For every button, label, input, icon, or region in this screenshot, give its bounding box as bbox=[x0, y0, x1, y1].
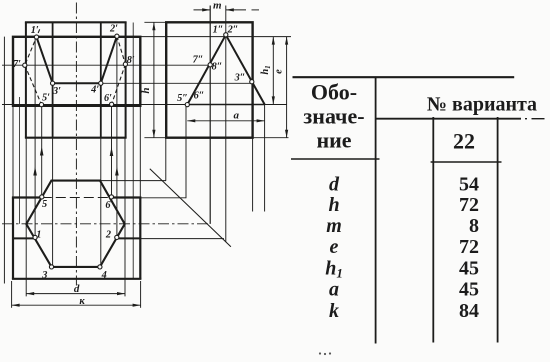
top view box right edge bbox=[139, 198, 141, 279]
arrow up on line 5 bbox=[40, 147, 44, 156]
dimension m arrow left bbox=[202, 8, 210, 11]
node 8' bbox=[123, 62, 127, 66]
projection line y=238.6 ridge level to diagonal bbox=[140, 238, 224, 240]
svg-text:1″: 1″ bbox=[213, 25, 224, 36]
table variant cell left edge bbox=[432, 117, 434, 343]
node 5 bbox=[40, 195, 44, 199]
arrow up on line 1 bbox=[33, 167, 37, 176]
intersection edge 4'-2' bbox=[101, 36, 117, 83]
svg-text:8″: 8″ bbox=[212, 62, 223, 73]
projection line y=36.6 to side view bbox=[140, 36, 291, 38]
node 1 bbox=[33, 235, 37, 239]
svg-text:№ варианта: № варианта bbox=[427, 94, 537, 116]
table column divider bbox=[375, 77, 377, 343]
front view prism corner edge 3 bbox=[52, 22, 54, 137]
dimension e arrows bbox=[285, 37, 288, 138]
svg-text:4: 4 bbox=[101, 270, 107, 281]
arrow up on line 6 bbox=[110, 147, 114, 156]
dimension e line bbox=[286, 37, 288, 138]
dimension m arrow right bbox=[226, 8, 234, 11]
svg-text:8′: 8′ bbox=[127, 55, 135, 66]
front view prism corner edge 4 bbox=[100, 22, 102, 137]
front view prism top edge bbox=[25, 21, 127, 23]
svg-text:4′: 4′ bbox=[90, 84, 99, 95]
dimension a line bbox=[187, 120, 264, 122]
cut edge right y=238.4 bbox=[117, 237, 141, 239]
svg-text:2″: 2″ bbox=[227, 25, 239, 36]
projection vertical x=19.4 faint bbox=[18, 97, 20, 224]
svg-text:72: 72 bbox=[459, 236, 479, 258]
svg-text:22: 22 bbox=[453, 129, 475, 154]
svg-text:3: 3 bbox=[41, 270, 47, 281]
dimension h line bbox=[153, 22, 155, 137]
hidden edge 7'-5' bbox=[25, 65, 42, 104]
projection vertical x=264.6 below pyramid corner bbox=[264, 105, 266, 212]
dimension m line left bbox=[194, 9, 211, 11]
svg-text:6′: 6′ bbox=[104, 93, 112, 104]
svg-text:d: d bbox=[329, 174, 340, 196]
svg-text:7′: 7′ bbox=[13, 59, 21, 70]
svg-text:5: 5 bbox=[42, 199, 47, 210]
dimension h1 line bbox=[272, 37, 274, 105]
svg-text:h: h bbox=[140, 87, 152, 93]
projection vertical x=100.8 point 4 bbox=[100, 138, 102, 267]
table variant cell right edge bbox=[497, 117, 499, 343]
side view pyramid base edge bbox=[187, 104, 264, 106]
front view prism left edge bbox=[25, 22, 27, 137]
svg-text:6″: 6″ bbox=[194, 91, 205, 102]
top view box top edge left part bbox=[12, 196, 42, 198]
top view box bottom edge bbox=[12, 278, 142, 280]
dimension k extension right bbox=[140, 281, 142, 308]
node 4 bbox=[98, 265, 102, 269]
projection vertical x=252.6 below side box bbox=[252, 138, 254, 212]
svg-text:a: a bbox=[329, 278, 339, 300]
svg-text:m: m bbox=[326, 215, 342, 237]
svg-text:ние: ние bbox=[316, 128, 351, 153]
dimension m line right bbox=[226, 9, 246, 11]
centerline vertical axis bbox=[75, 3, 77, 286]
projection line y=137.7 left ext bbox=[144, 137, 166, 139]
svg-text:72: 72 bbox=[459, 194, 479, 216]
table header underline dash bbox=[532, 118, 545, 120]
projection line y=65.2 level 7'-7'' bbox=[2, 64, 210, 66]
transfer vertical x=165.8 bbox=[165, 138, 167, 181]
dimension d arrows bbox=[26, 292, 125, 295]
centerline horizontal axis top view bbox=[2, 223, 211, 225]
hexagon base bbox=[26, 181, 124, 267]
front view prism right edge bbox=[125, 22, 127, 137]
svg-text:2′: 2′ bbox=[109, 24, 118, 35]
node 3 bbox=[49, 265, 53, 269]
dimension k arrows bbox=[12, 304, 141, 307]
side view box outline bbox=[166, 22, 252, 137]
svg-text:e: e bbox=[330, 236, 339, 258]
svg-text:5″: 5″ bbox=[177, 93, 188, 104]
svg-text:h1: h1 bbox=[260, 65, 272, 74]
front view prism bottom edge bbox=[25, 137, 127, 139]
node 4' bbox=[99, 81, 103, 85]
table top border bbox=[293, 76, 515, 78]
transfer diagonal 45 degree line bbox=[150, 169, 231, 247]
top view box top edge hidden middle bbox=[42, 197, 112, 199]
node apex 1''2'' bbox=[224, 33, 228, 37]
node 7' bbox=[23, 63, 27, 67]
projection line y=104.5 base level bbox=[2, 104, 287, 106]
table header underline bbox=[376, 118, 521, 120]
svg-text:e: e bbox=[273, 69, 284, 74]
arrow up on line 2 bbox=[115, 167, 119, 176]
svg-text:3′: 3′ bbox=[52, 86, 61, 97]
svg-text:значе-: значе- bbox=[303, 104, 364, 129]
dimension m dash right bbox=[252, 9, 260, 11]
svg-text:m: m bbox=[213, 0, 222, 12]
projection vertical x=13 below front box bbox=[12, 106, 14, 198]
projection vertical x=133.2 bbox=[132, 23, 134, 279]
svg-text:1: 1 bbox=[36, 230, 41, 241]
node 7''8'' bbox=[208, 63, 212, 67]
svg-text:45: 45 bbox=[459, 278, 479, 300]
node 5''6'' bbox=[185, 103, 189, 107]
cut edge left y=238.4 bbox=[13, 237, 35, 239]
svg-text:a: a bbox=[234, 109, 240, 121]
hidden edge 1'-7' bbox=[25, 29, 40, 65]
dimension k extension left bbox=[11, 281, 13, 308]
node 1' bbox=[34, 35, 38, 39]
svg-text:5′: 5′ bbox=[42, 93, 50, 104]
side view pyramid left slant bbox=[187, 35, 226, 105]
hidden edge 8'-6' bbox=[112, 64, 126, 104]
side view pyramid right slant bbox=[226, 35, 265, 105]
intersection edge 3'-4' bbox=[53, 82, 101, 84]
dimension h1 arrows bbox=[272, 37, 275, 105]
front view box outline bbox=[13, 37, 140, 106]
top view box left edge bbox=[12, 198, 14, 279]
transfer vertical x=210.2 through 7''8'' bbox=[209, 6, 211, 224]
svg-text:3″: 3″ bbox=[234, 73, 246, 84]
svg-text:Обо-: Обо- bbox=[311, 80, 357, 105]
node 3' bbox=[51, 81, 55, 85]
node 3'' bbox=[250, 80, 254, 84]
projection vertical x=116.9 point 2 bbox=[116, 37, 118, 238]
intersection edge 1'-3' bbox=[37, 37, 53, 83]
svg-text:к: к bbox=[79, 296, 85, 307]
svg-text:84: 84 bbox=[459, 300, 479, 322]
dimension h arrows bbox=[152, 22, 155, 137]
table header underline dot bbox=[525, 118, 527, 120]
top view box top edge right part bbox=[111, 196, 141, 198]
svg-text:1′: 1′ bbox=[31, 25, 39, 36]
projection line y=197.8 box front edge to diagonal bbox=[140, 197, 185, 199]
svg-text:54: 54 bbox=[459, 174, 479, 196]
node 2 bbox=[115, 235, 119, 239]
svg-text:45: 45 bbox=[459, 257, 479, 279]
projection vertical x=125 hexagon right vertex and d bbox=[124, 138, 126, 297]
svg-text:h1: h1 bbox=[325, 257, 343, 280]
projection vertical x=41.7 point 5 bbox=[41, 105, 43, 197]
svg-text:6: 6 bbox=[105, 200, 111, 211]
projection line y=137.7 right ext bbox=[253, 137, 289, 139]
projection vertical x=35.1 point 1 bbox=[34, 37, 36, 237]
projection line left border vertical bbox=[3, 37, 5, 284]
node 5' bbox=[39, 103, 43, 107]
dimension a arrows bbox=[187, 119, 264, 122]
projection line y=83.3 level 3'4'-3'' bbox=[101, 82, 252, 84]
svg-text:7″: 7″ bbox=[193, 55, 204, 66]
svg-text:d: d bbox=[74, 283, 80, 295]
transfer vertical x=186 bbox=[185, 105, 187, 199]
projection line y=180.6 hexagon front edge to diagonal bbox=[100, 180, 166, 182]
projection vertical x=26.2 to hexagon left vertex and d bbox=[25, 138, 27, 297]
transfer vertical x=225.8 through apex bbox=[225, 6, 227, 242]
node 6' bbox=[110, 102, 114, 106]
svg-text:k: k bbox=[329, 300, 339, 322]
hidden edge 2'-8' bbox=[117, 36, 126, 64]
node 6 bbox=[109, 195, 113, 199]
svg-text:8: 8 bbox=[469, 215, 479, 237]
projection line y=22.3 between views bbox=[144, 21, 166, 23]
projection vertical x=111.5 point 6 bbox=[111, 105, 113, 197]
dimension d line bbox=[26, 293, 125, 295]
projection vertical x=52.6 point 3 bbox=[52, 138, 54, 267]
svg-text:2: 2 bbox=[105, 230, 111, 241]
dimension k line bbox=[12, 304, 141, 306]
projection vertical x=140.3 below front box bbox=[139, 106, 141, 198]
table designation underline bbox=[291, 158, 380, 160]
table variant number underline bbox=[431, 161, 502, 163]
svg-text:h: h bbox=[328, 194, 339, 216]
node 2' bbox=[115, 34, 119, 38]
speck dots bottom left of table bbox=[319, 352, 321, 354]
